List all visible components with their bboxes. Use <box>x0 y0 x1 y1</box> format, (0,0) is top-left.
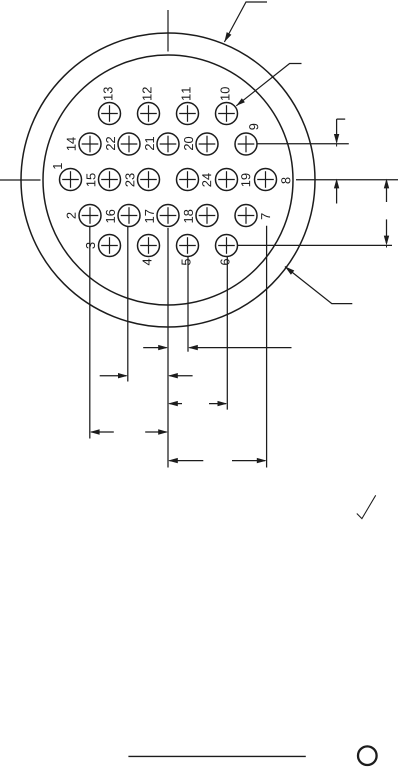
dim row 5: pin17 to pin8 columns (inside arrows) <box>168 458 267 463</box>
pin 7 <box>235 205 270 227</box>
pin 15 <box>86 169 120 191</box>
pin 5 <box>177 235 199 266</box>
pin 23 <box>125 169 159 191</box>
dim row 1: pin17 to pin5 columns (outside arrows) <box>143 345 291 350</box>
pin 4 <box>138 235 160 266</box>
pin 2 <box>67 205 101 227</box>
leader to pin 10 <box>236 64 301 106</box>
vertical centerline tick at top <box>167 10 169 52</box>
pin 11 <box>177 87 199 124</box>
pin 21 <box>145 133 179 155</box>
pin 12 <box>138 87 160 124</box>
pin 22 <box>106 133 140 155</box>
vertical dimension pin9-row to pin8-row (outside arrows) <box>334 119 345 203</box>
outer circle (connector shell) <box>21 33 315 327</box>
pin 10 <box>216 87 238 124</box>
extension line below pin 5 <box>187 257 189 352</box>
bottom horizontal line <box>128 755 305 757</box>
pin 9 <box>235 124 258 155</box>
dim row 4: pin2 to pin17 columns (inside arrows) <box>90 429 168 434</box>
pin 24 <box>177 169 212 191</box>
leader to outer circle (bottom right) <box>285 267 352 304</box>
extension line from pin 6 row (right) <box>238 244 393 246</box>
pin 20 <box>184 133 218 155</box>
pin 1 <box>53 163 81 190</box>
pin 17 <box>145 205 179 227</box>
dim row 3: pin17 to pin6 columns (inside arrows) <box>168 401 227 406</box>
leader to outer circle (top) <box>224 2 267 42</box>
inner circle (insert face) <box>43 55 293 305</box>
extension line below pin 2 <box>89 227 91 439</box>
extension line below pin 8 <box>266 226 268 468</box>
pin 14 <box>67 133 101 155</box>
pin 16 <box>106 205 140 227</box>
extension line from pin 9 row <box>257 143 349 145</box>
pin 19 <box>216 169 251 191</box>
extension line below pin 17 <box>167 228 169 468</box>
extension line below pin 6 <box>226 257 228 410</box>
bottom right circle <box>358 746 377 765</box>
inspection checkmark <box>357 495 376 518</box>
pin 13 <box>99 87 121 124</box>
dim row 2: pin16 to pin17 columns (outside arrows) <box>100 373 193 378</box>
pin 8 <box>255 169 291 191</box>
pin 18 <box>184 205 218 227</box>
vertical dimension pin8-row to pin6-row (inside arrows, broken) <box>384 179 389 248</box>
pin 6 <box>216 235 238 265</box>
extension line below pin 16 <box>127 227 129 382</box>
pin 3 <box>86 235 121 257</box>
horizontal centerline tick at left <box>0 179 41 181</box>
extension line from pin 8 row (right) <box>296 179 398 181</box>
